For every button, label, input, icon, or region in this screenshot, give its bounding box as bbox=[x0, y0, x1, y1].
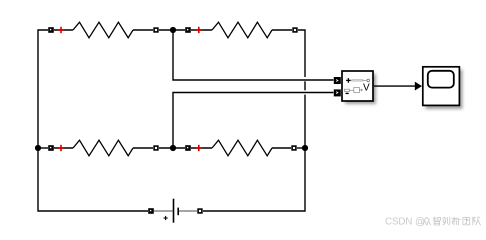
wire right column lower segments bbox=[203, 81, 305, 211]
port R2 right bbox=[293, 28, 297, 32]
port R1 right bbox=[154, 28, 158, 32]
wire from top junction down to voltage sensor plus input bbox=[173, 30, 334, 80]
resistor R4 zigzag bbox=[212, 140, 272, 156]
resistor R2 zigzag bbox=[212, 22, 272, 38]
port R3 right bbox=[154, 146, 158, 150]
wire top row between R1 ports and junction bbox=[54, 29, 185, 31]
node top junction bbox=[170, 27, 176, 33]
resistor R1 zigzag bbox=[73, 22, 133, 38]
svg-text:V: V bbox=[363, 83, 370, 94]
wire top row R2 to top-right corner bbox=[191, 30, 305, 77]
resistor R3 zigzag bbox=[73, 140, 133, 156]
scope block bbox=[423, 67, 463, 109]
zhong (crowd) glyph bbox=[423, 217, 431, 225]
wire from bottom junction up to voltage sensor minus input bbox=[173, 93, 334, 149]
port battery right bbox=[198, 209, 202, 213]
op-amp U1 voltage measurement block bbox=[342, 71, 376, 104]
chuang (create) glyph bbox=[443, 217, 450, 225]
zhi (wisdom) glyph bbox=[433, 217, 441, 225]
port R2 left bbox=[185, 27, 191, 33]
U1 input port plus terminal bbox=[334, 77, 341, 84]
watermark text bbox=[385, 217, 480, 228]
polarity plus R1 bbox=[58, 27, 64, 33]
port battery left bbox=[148, 208, 154, 214]
wire U1 output to scope bbox=[374, 82, 422, 91]
U1 icon plus probe bbox=[346, 78, 369, 83]
node bottom-middle junction bbox=[170, 145, 176, 151]
port R4 right bbox=[292, 146, 296, 150]
node bottom-left junction bbox=[35, 145, 41, 151]
polarity plus R2 bbox=[196, 27, 202, 33]
polarity plus R3 bbox=[58, 145, 64, 151]
dui (team) glyph bbox=[473, 217, 481, 225]
port R4 left bbox=[185, 145, 191, 151]
svg-text:CSDN @: CSDN @ bbox=[385, 217, 425, 228]
battery V1 DC voltage source bbox=[154, 199, 197, 223]
tuan (group) glyph bbox=[463, 218, 470, 225]
port R1 left bbox=[48, 27, 54, 33]
xin (new) glyph bbox=[452, 217, 460, 225]
battery plus label bbox=[164, 216, 168, 220]
port R3 left bbox=[48, 145, 54, 151]
wire left column and bottom-left run bbox=[38, 30, 148, 211]
wire bottom row between R3/R4 ports and junctions bbox=[38, 147, 305, 149]
U1 icon minus branch and V label bbox=[345, 83, 370, 94]
node bottom-right junction bbox=[302, 145, 308, 151]
polarity plus R4 bbox=[196, 145, 202, 151]
U1 input port minus terminal bbox=[334, 89, 341, 96]
